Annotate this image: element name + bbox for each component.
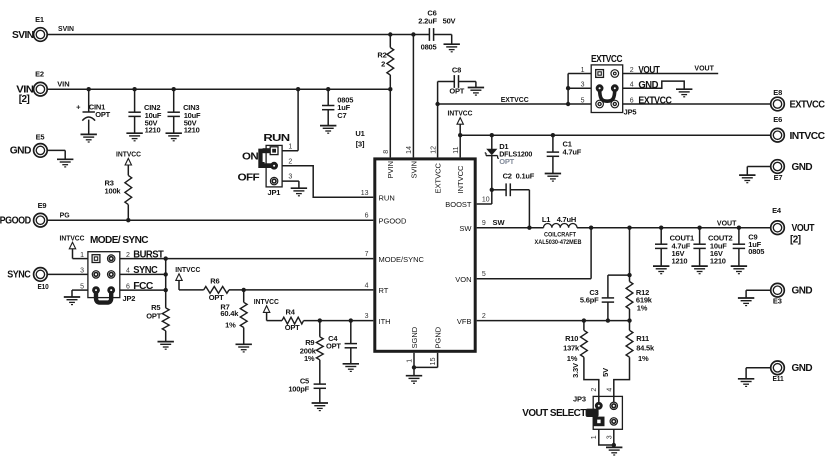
svg-text:4: 4 xyxy=(126,268,130,275)
svg-text:[2]: [2] xyxy=(19,94,30,105)
svg-text:1%: 1% xyxy=(637,303,648,312)
svg-text:EXTVCC: EXTVCC xyxy=(638,96,671,107)
svg-text:JP5: JP5 xyxy=(624,108,637,117)
svg-text:2.2uF: 2.2uF xyxy=(418,17,437,26)
svg-text:OPT: OPT xyxy=(209,293,224,302)
svg-text:VON: VON xyxy=(455,275,471,284)
svg-text:3.3V: 3.3V xyxy=(571,363,580,378)
svg-text:OPT: OPT xyxy=(326,342,341,351)
svg-text:R10: R10 xyxy=(565,334,578,343)
svg-text:MODE/SYNC: MODE/SYNC xyxy=(379,255,425,264)
svg-text:BURST: BURST xyxy=(133,249,163,260)
svg-text:4.7uH: 4.7uH xyxy=(557,215,576,224)
svg-text:1%: 1% xyxy=(567,354,578,363)
svg-text:1210: 1210 xyxy=(184,126,200,135)
svg-text:0805: 0805 xyxy=(748,247,764,256)
svg-text:C8: C8 xyxy=(452,66,461,75)
svg-text:E4: E4 xyxy=(772,206,782,215)
svg-text:OPT: OPT xyxy=(499,157,514,166)
svg-text:U1: U1 xyxy=(355,129,364,138)
svg-text:VOUT SELECT: VOUT SELECT xyxy=(522,408,586,419)
svg-text:1210: 1210 xyxy=(672,257,688,266)
svg-text:1210: 1210 xyxy=(710,257,726,266)
svg-text:1: 1 xyxy=(581,67,585,74)
svg-text:E5: E5 xyxy=(36,133,45,142)
svg-text:INTVCC: INTVCC xyxy=(456,165,465,194)
svg-text:C7: C7 xyxy=(337,111,346,120)
svg-text:PGOOD: PGOOD xyxy=(0,216,31,227)
svg-text:1%: 1% xyxy=(225,320,236,329)
svg-text:SYNC: SYNC xyxy=(7,270,30,281)
svg-text:SW: SW xyxy=(459,224,472,233)
svg-text:EXTVCC: EXTVCC xyxy=(434,162,443,193)
svg-text:PG: PG xyxy=(60,211,70,220)
svg-text:RUN: RUN xyxy=(263,133,289,144)
svg-text:84.5k: 84.5k xyxy=(636,344,655,353)
svg-text:[3]: [3] xyxy=(356,140,365,149)
svg-text:GND: GND xyxy=(638,80,658,91)
svg-text:1: 1 xyxy=(80,252,84,259)
svg-text:VOUT: VOUT xyxy=(694,64,714,73)
svg-text:GND: GND xyxy=(792,363,813,374)
svg-text:13: 13 xyxy=(361,190,369,197)
svg-text:VIN: VIN xyxy=(57,79,69,88)
svg-text:R11: R11 xyxy=(636,334,649,343)
svg-text:E10: E10 xyxy=(38,282,49,291)
svg-text:1%: 1% xyxy=(638,354,649,363)
svg-text:GND: GND xyxy=(792,162,813,173)
svg-text:OFF: OFF xyxy=(238,173,260,184)
svg-text:15: 15 xyxy=(430,357,437,365)
svg-text:E3: E3 xyxy=(773,297,782,306)
svg-text:FCC: FCC xyxy=(133,281,153,292)
svg-text:100k: 100k xyxy=(105,187,122,196)
svg-text:4.7uF: 4.7uF xyxy=(563,147,582,156)
svg-text:JP2: JP2 xyxy=(123,294,136,303)
svg-text:6: 6 xyxy=(365,213,369,220)
svg-text:L1: L1 xyxy=(542,215,550,224)
svg-text:VFB: VFB xyxy=(457,317,472,326)
svg-text:VOUT: VOUT xyxy=(792,223,815,234)
svg-text:1: 1 xyxy=(591,435,598,439)
svg-text:COILCRAFT: COILCRAFT xyxy=(544,231,577,238)
svg-text:INTVCC: INTVCC xyxy=(790,131,825,142)
svg-text:MODE/ SYNC: MODE/ SYNC xyxy=(90,235,148,246)
svg-text:14: 14 xyxy=(406,146,413,154)
svg-text:OPT: OPT xyxy=(95,110,110,119)
svg-text:1%: 1% xyxy=(304,354,315,363)
svg-text:SYNC: SYNC xyxy=(133,265,157,276)
svg-text:ITH: ITH xyxy=(379,317,391,326)
svg-text:SVIN: SVIN xyxy=(409,161,418,179)
svg-text:5: 5 xyxy=(482,271,486,278)
svg-text:2: 2 xyxy=(288,159,292,166)
svg-text:5V: 5V xyxy=(601,368,610,377)
svg-text:ON: ON xyxy=(242,151,258,162)
svg-text:100pF: 100pF xyxy=(288,384,309,393)
svg-text:0805: 0805 xyxy=(421,43,437,52)
svg-text:2: 2 xyxy=(482,313,486,320)
svg-text:JP1: JP1 xyxy=(268,188,281,197)
svg-text:6: 6 xyxy=(126,283,130,290)
svg-text:PGND: PGND xyxy=(433,326,442,348)
svg-text:2: 2 xyxy=(126,252,130,259)
svg-text:SW: SW xyxy=(493,218,506,227)
svg-text:2: 2 xyxy=(591,388,598,392)
svg-text:4: 4 xyxy=(365,282,369,289)
svg-text:1210: 1210 xyxy=(145,126,161,135)
svg-text:3: 3 xyxy=(288,173,292,180)
svg-text:PVIN: PVIN xyxy=(386,161,395,179)
svg-text:1: 1 xyxy=(407,359,414,363)
svg-text:GND: GND xyxy=(10,146,31,157)
svg-text:EXTVCC: EXTVCC xyxy=(790,100,825,111)
svg-text:VOUT: VOUT xyxy=(717,218,737,227)
svg-text:SVIN: SVIN xyxy=(58,24,74,33)
svg-text:INTVCC: INTVCC xyxy=(60,233,86,242)
svg-text:BOOST: BOOST xyxy=(445,200,472,209)
svg-text:OPT: OPT xyxy=(285,323,300,332)
svg-text:GND: GND xyxy=(792,286,813,297)
svg-text:EXTVCC: EXTVCC xyxy=(501,95,530,104)
svg-text:R2: R2 xyxy=(377,51,386,60)
svg-text:3: 3 xyxy=(80,268,84,275)
svg-text:137k: 137k xyxy=(563,344,580,353)
svg-text:3: 3 xyxy=(606,435,613,439)
svg-text:0.1uF: 0.1uF xyxy=(516,171,535,180)
svg-text:9: 9 xyxy=(482,220,486,227)
svg-text:E11: E11 xyxy=(773,374,784,383)
svg-text:10: 10 xyxy=(482,197,490,204)
svg-text:XAL5030-472MEB: XAL5030-472MEB xyxy=(535,239,582,246)
svg-text:RT: RT xyxy=(379,286,389,295)
svg-text:+: + xyxy=(76,103,81,112)
svg-text:4: 4 xyxy=(606,388,613,392)
svg-text:INTVCC: INTVCC xyxy=(175,265,201,274)
svg-text:OPT: OPT xyxy=(146,311,161,320)
svg-text:PGOOD: PGOOD xyxy=(379,216,408,225)
svg-text:E7: E7 xyxy=(774,173,783,182)
svg-text:3: 3 xyxy=(581,82,585,89)
svg-text:R4: R4 xyxy=(286,308,296,317)
svg-text:E2: E2 xyxy=(35,69,44,78)
svg-text:SVIN: SVIN xyxy=(12,30,34,41)
svg-text:INTVCC: INTVCC xyxy=(448,109,474,118)
svg-text:50V: 50V xyxy=(443,17,456,26)
svg-text:R6: R6 xyxy=(210,277,219,286)
svg-text:3: 3 xyxy=(365,313,369,320)
svg-text:12: 12 xyxy=(430,146,437,154)
svg-text:5.6pF: 5.6pF xyxy=(580,296,599,305)
svg-text:[2]: [2] xyxy=(790,235,801,246)
svg-text:SGND: SGND xyxy=(410,326,419,348)
svg-text:E6: E6 xyxy=(773,115,782,124)
svg-text:E1: E1 xyxy=(35,15,44,24)
svg-text:OPT: OPT xyxy=(449,87,464,96)
svg-text:5: 5 xyxy=(581,97,585,104)
svg-text:RUN: RUN xyxy=(379,194,395,203)
svg-text:11: 11 xyxy=(453,146,460,153)
svg-text:60.4k: 60.4k xyxy=(220,309,239,318)
svg-text:7: 7 xyxy=(365,251,369,258)
svg-text:JP3: JP3 xyxy=(573,394,586,403)
svg-text:5: 5 xyxy=(80,283,84,290)
svg-text:2: 2 xyxy=(381,60,385,69)
svg-text:VOUT: VOUT xyxy=(638,65,659,76)
svg-text:EXTVCC: EXTVCC xyxy=(591,54,622,65)
svg-text:E9: E9 xyxy=(38,201,47,210)
svg-text:1: 1 xyxy=(288,144,292,151)
svg-text:8: 8 xyxy=(383,150,390,154)
svg-text:C2: C2 xyxy=(503,171,512,180)
svg-text:E8: E8 xyxy=(773,88,782,97)
svg-text:INTVCC: INTVCC xyxy=(116,150,142,159)
